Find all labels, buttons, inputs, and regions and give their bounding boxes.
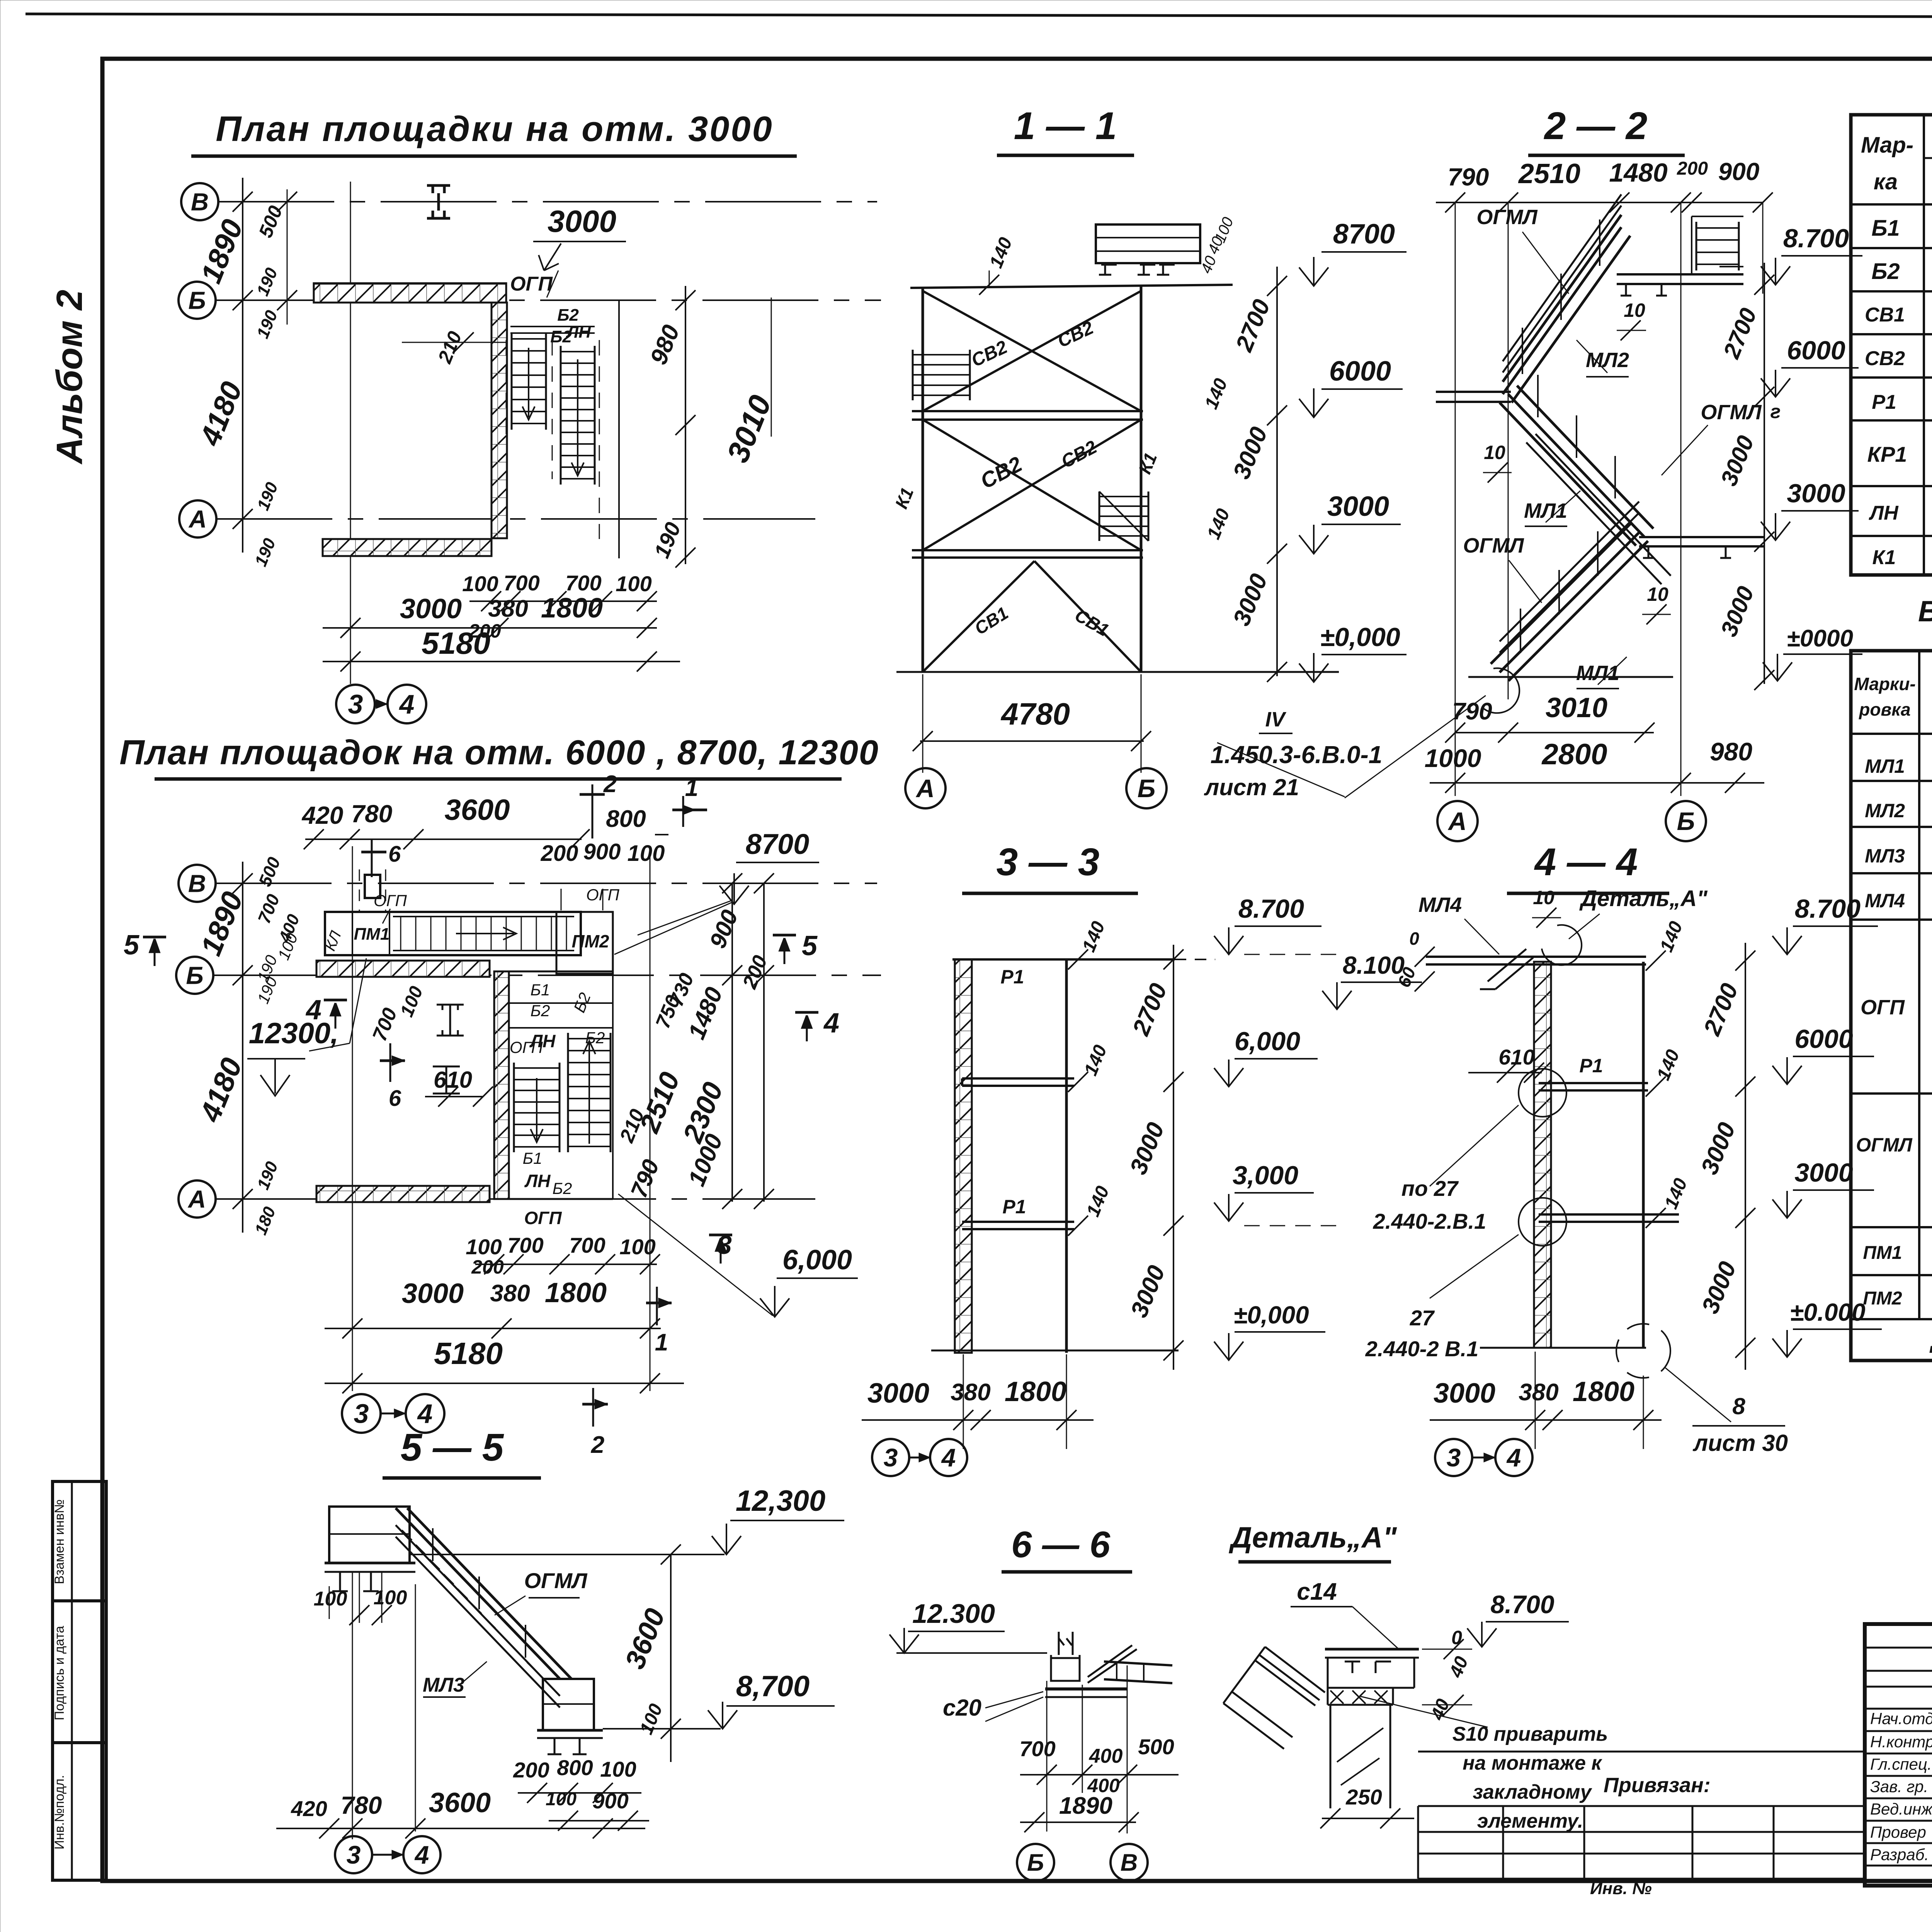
callout circle upper (4-4): [1519, 1069, 1566, 1117]
svg-text:ПМ2: ПМ2: [1863, 1288, 1902, 1309]
svg-text:3: 3: [884, 1443, 898, 1472]
left dim line 1890/4180: [242, 178, 243, 553]
stamp row lines: [1865, 1708, 1932, 1710]
top I-beam mark: [427, 185, 450, 218]
flight МЛ2 (upper): [1503, 194, 1630, 403]
svg-text:Б: Б: [188, 286, 206, 314]
svg-text:5180: 5180: [422, 626, 490, 660]
vertical dim 3600 (5-5): [670, 1554, 672, 1762]
shaft beams labels: [509, 1002, 613, 1004]
svg-text:с14: с14: [1297, 1578, 1337, 1605]
svg-text:ОГП: ОГП: [510, 273, 553, 295]
table 1 grid: [1851, 115, 1932, 575]
svg-text:700: 700: [503, 571, 539, 595]
svg-text:4: 4: [417, 1399, 433, 1429]
svg-text:МЛ4: МЛ4: [1865, 890, 1905, 912]
section mark 6 bottom: [389, 1043, 391, 1082]
svg-text:1480: 1480: [1609, 158, 1667, 187]
svg-text:8,700: 8,700: [736, 1670, 810, 1703]
svg-text:S10 приварить: S10 приварить: [1452, 1723, 1608, 1745]
svg-text:100: 100: [628, 841, 665, 866]
svg-text:±0,000: ±0,000: [1320, 622, 1400, 652]
svg-text:3000: 3000: [1787, 479, 1845, 508]
svg-text:План площадок на отм. 6000: План площадок на отм. 6000 , 8700, 12300: [119, 733, 879, 772]
base 3-3: [931, 1350, 1179, 1352]
svg-text:А: А: [188, 505, 207, 533]
svg-text:Б2: Б2: [531, 1002, 550, 1020]
vertical guide lines to circles (plan2): [352, 846, 353, 1391]
weld xxx marks: [1330, 1690, 1388, 1704]
right dim line 1-1: [1276, 267, 1278, 676]
wall vertical: [492, 303, 507, 538]
svg-text:А: А: [1447, 807, 1467, 835]
post 4-4: [1642, 962, 1645, 1348]
svg-text:8.700: 8.700: [1783, 224, 1849, 253]
svg-text:Б: Б: [1677, 807, 1695, 835]
lower landing 3000 (2-2): [1639, 536, 1764, 538]
shaft stairs left flight (down): [513, 1063, 515, 1152]
svg-text:500: 500: [1138, 1735, 1174, 1759]
beam 6000 (3-3): [962, 1077, 1074, 1080]
grid axis line В: [218, 201, 877, 202]
grid circle В (plan2): [179, 865, 216, 902]
svg-text:100: 100: [462, 571, 498, 596]
box ПМ1/КЛ: [352, 913, 353, 954]
section flag 1: [682, 796, 684, 827]
svg-text:1.450.3-6.В.0-1: 1.450.3-6.В.0-1: [1211, 741, 1383, 769]
svg-text:К1: К1: [1872, 546, 1896, 569]
section mark 2 bottom: [592, 1388, 594, 1427]
flight МЛ1 mid (down to right): [1500, 386, 1671, 584]
svg-text:ОГП: ОГП: [510, 1038, 543, 1056]
bottom dim 5180: [323, 661, 680, 662]
svg-text:Деталь„А": Деталь„А": [1228, 1521, 1397, 1554]
frame 1-1: ground line: [896, 671, 1339, 673]
svg-text:ровка: ровка: [1858, 699, 1910, 719]
svg-text:3000: 3000: [1794, 1158, 1853, 1187]
table 2 grid: [1851, 651, 1932, 1361]
svg-text:420: 420: [301, 801, 344, 829]
svg-text:элементу.: элементу.: [1477, 1810, 1583, 1832]
grid axis line В (plan2): [216, 883, 877, 884]
top platform supports: [1099, 265, 1175, 275]
svg-text:100: 100: [616, 571, 651, 596]
second beam (4-4): [1539, 1213, 1679, 1216]
svg-text:закладному: закладному: [1473, 1781, 1592, 1803]
svg-text:100: 100: [314, 1588, 347, 1610]
section mark 6 top: [371, 838, 373, 877]
svg-text:1000: 1000: [1425, 744, 1481, 772]
column 3-3 (hatched): [955, 959, 972, 1353]
guide verticals 6-6: [1046, 1681, 1048, 1832]
svg-text:Б: Б: [186, 961, 203, 989]
svg-text:6,000: 6,000: [782, 1245, 852, 1276]
svg-text:Б: Б: [1027, 1850, 1044, 1876]
svg-text:4: 4: [823, 1008, 839, 1039]
svg-text:6000: 6000: [1794, 1024, 1853, 1054]
svg-text:5180: 5180: [434, 1336, 503, 1371]
wall vertical (plan2): [494, 971, 509, 1199]
top platform 1-1: [1096, 224, 1200, 263]
svg-text:700: 700: [1019, 1736, 1055, 1761]
right dim line 4-4: [1745, 943, 1746, 1370]
V-brace bottom panel СВ1: [923, 561, 1034, 672]
svg-text:6000: 6000: [1787, 336, 1845, 365]
base landing (2-2): [1468, 676, 1673, 678]
axis circles А Б (1-1): [905, 768, 946, 808]
svg-text:Мар-: Мар-: [1861, 133, 1913, 158]
callout circle lower (4-4): [1519, 1198, 1566, 1246]
svg-text:4: 4: [1506, 1443, 1521, 1472]
svg-text:ОГП: ОГП: [524, 1208, 562, 1228]
svg-text:А: А: [187, 1185, 206, 1213]
axis circles Б В (6-6): [1017, 1844, 1054, 1881]
svg-text:2: 2: [603, 771, 617, 798]
stair shaft box: [509, 971, 613, 973]
section flag 2/800: [592, 784, 594, 838]
svg-text:Разраб.: Разраб.: [1870, 1845, 1929, 1864]
svg-text:Б: Б: [1138, 774, 1156, 803]
svg-text:Б2: Б2: [557, 306, 579, 325]
svg-text:ОГМЛ: ОГМЛ: [524, 1568, 588, 1593]
svg-text:ПМ1: ПМ1: [1863, 1243, 1902, 1263]
svg-text:1800: 1800: [541, 593, 603, 624]
axis circles А Б (2-2): [1437, 801, 1478, 841]
svg-text:КР1: КР1: [1867, 442, 1907, 466]
svg-text:420: 420: [291, 1796, 327, 1821]
svg-text:МЛ1: МЛ1: [1865, 755, 1905, 777]
grid axis line А (plan2): [216, 1198, 815, 1200]
svg-text:4: 4: [941, 1443, 956, 1472]
svg-text:780: 780: [341, 1791, 382, 1819]
svg-text:8: 8: [1732, 1393, 1745, 1419]
stair 5-5 diagonal rails: [396, 1508, 571, 1708]
top platform 4-4: [1426, 956, 1534, 958]
svg-text:ЛН: ЛН: [1868, 502, 1899, 524]
svg-text:±0,000: ±0,000: [1233, 1301, 1309, 1329]
svg-text:5: 5: [124, 930, 139, 961]
svg-text:790: 790: [1448, 163, 1489, 191]
shaft stairs right flight (up): [567, 1033, 569, 1152]
rail posts МЛ2: [1522, 219, 1600, 374]
svg-text:12,300: 12,300: [736, 1485, 825, 1517]
beam bar 6-6: [1104, 1662, 1172, 1665]
svg-text:Альбом 2: Альбом 2: [49, 290, 90, 464]
svg-text:Б2: Б2: [553, 1179, 572, 1197]
frame 1-1: mid beam: [912, 410, 1143, 412]
svg-text:610: 610: [1498, 1045, 1534, 1069]
svg-text:Р1: Р1: [1872, 391, 1896, 413]
svg-text:ЛН: ЛН: [566, 323, 591, 342]
svg-text:200: 200: [1677, 158, 1708, 179]
landing 8700 (2-2): [1617, 273, 1743, 276]
svg-text:3: 3: [354, 1399, 369, 1429]
svg-text:1: 1: [655, 1329, 668, 1356]
right dim vlines (plan2): [731, 883, 733, 1202]
frame 1-1: lower beam: [912, 549, 1143, 551]
svg-text:3,000: 3,000: [1233, 1161, 1298, 1190]
svg-text:800: 800: [557, 1755, 593, 1780]
svg-text:на монтаже к: на монтаже к: [1463, 1752, 1602, 1774]
svg-text:Инв.№подл.: Инв.№подл.: [52, 1775, 67, 1850]
svg-text:3000: 3000: [1434, 1378, 1495, 1409]
top beam 4-4: [1534, 956, 1646, 958]
svg-text:0: 0: [1409, 929, 1419, 949]
mid landing 6000 (2-2): [1436, 391, 1511, 393]
svg-text:3010: 3010: [1546, 692, 1607, 723]
svg-text:900: 900: [583, 839, 621, 864]
svg-text:3000: 3000: [1327, 491, 1389, 522]
svg-text:Марки-: Марки-: [1854, 674, 1915, 694]
svg-text:1 — 1: 1 — 1: [1014, 104, 1117, 148]
platform base plate: [325, 1562, 415, 1565]
landing strip along В: [325, 912, 581, 955]
svg-text:1890: 1890: [1059, 1793, 1112, 1819]
6-6 drawing: channel + beam: [1051, 1632, 1080, 1681]
svg-text:900: 900: [1718, 158, 1760, 185]
svg-text:СВ2: СВ2: [1865, 347, 1905, 370]
svg-text:6 — 6: 6 — 6: [1011, 1524, 1111, 1565]
grid circle А: [179, 500, 216, 537]
svg-text:12300,: 12300,: [249, 1017, 338, 1050]
svg-text:8.700: 8.700: [1490, 1590, 1554, 1619]
detail channel body: [1327, 1658, 1329, 1688]
svg-text:5 — 5: 5 — 5: [401, 1426, 504, 1469]
svg-text:12.300: 12.300: [912, 1599, 995, 1629]
svg-text:610: 610: [434, 1067, 472, 1093]
post 3-3: [1065, 959, 1068, 1353]
stamp outer box: [1865, 1624, 1932, 1886]
svg-text:4: 4: [399, 689, 415, 719]
svg-text:Подпись и дата: Подпись и дата: [52, 1626, 67, 1721]
axis circles 3 4 (4-4): [1435, 1439, 1472, 1476]
svg-text:700: 700: [569, 1233, 605, 1257]
ladder left 1-1: [912, 350, 914, 400]
svg-text:лист 30: лист 30: [1692, 1430, 1788, 1456]
grid axis line А: [216, 518, 815, 520]
svg-text:±0000: ±0000: [1787, 625, 1853, 652]
svg-text:МЛ2: МЛ2: [1586, 349, 1629, 372]
grid axis line Б (plan2): [213, 975, 881, 976]
svg-text:Нач.отд: Нач.отд: [1870, 1709, 1932, 1728]
svg-text:МЛ1: МЛ1: [1576, 662, 1619, 685]
stair treads zigzag: [402, 1530, 537, 1672]
svg-text:МЛ2: МЛ2: [1865, 800, 1905, 821]
svg-text:100: 100: [546, 1789, 577, 1810]
svg-text:ОГМЛ: ОГМЛ: [1476, 206, 1538, 229]
svg-text:Б1: Б1: [523, 1149, 543, 1167]
right dim line 980/3010/190: [618, 300, 620, 558]
svg-text:ЛН: ЛН: [524, 1171, 551, 1191]
svg-text:200: 200: [471, 1256, 504, 1278]
svg-text:лист 21: лист 21: [1204, 774, 1299, 800]
svg-text:СВ1: СВ1: [1865, 304, 1905, 326]
svg-text:В: В: [191, 188, 209, 216]
svg-text:Р1: Р1: [1579, 1055, 1603, 1077]
grid circle В: [181, 183, 218, 220]
bottom dims (plan2) 100-700-700-100: [475, 1264, 657, 1265]
svg-text:10: 10: [1624, 299, 1645, 321]
svg-text:ОГП: ОГП: [374, 891, 407, 910]
bottom dim 5180 (plan2): [325, 1383, 684, 1384]
svg-text:6000: 6000: [1329, 356, 1391, 387]
svg-text:3000: 3000: [400, 594, 462, 624]
svg-text:Инв. №: Инв. №: [1590, 1879, 1652, 1898]
svg-text:200: 200: [513, 1758, 549, 1782]
svg-text:1800: 1800: [1573, 1376, 1634, 1407]
svg-text:ОГП: ОГП: [1861, 996, 1905, 1019]
svg-text:3 — 3: 3 — 3: [997, 840, 1100, 884]
svg-text:6,000: 6,000: [1235, 1027, 1300, 1056]
grid axis line Б: [216, 299, 881, 301]
leader lines to 8700: [638, 900, 732, 935]
svg-text:2510: 2510: [1518, 158, 1580, 189]
svg-text:Привязан:: Привязан:: [1604, 1774, 1711, 1797]
wall along Б: [314, 283, 506, 303]
svg-text:100: 100: [466, 1235, 502, 1259]
leader from 12300 to stair: [309, 1043, 350, 1051]
svg-text:Взамен инв№: Взамен инв№: [52, 1499, 67, 1584]
right dim line 2-2: [1764, 263, 1765, 684]
callout circle base: [1482, 668, 1519, 713]
grid circle Б (plan2): [176, 957, 213, 994]
svg-text:4 — 4: 4 — 4: [1534, 840, 1638, 884]
axis circles 3 4 (3-3): [872, 1439, 909, 1476]
ПМ2 landing right: [556, 912, 613, 974]
guide verticals 5-5: [352, 1572, 353, 1839]
svg-text:с20: с20: [943, 1695, 981, 1721]
svg-text:8700: 8700: [1333, 219, 1395, 250]
right dim line 3-3: [1173, 945, 1174, 1370]
svg-text:В: В: [188, 869, 206, 897]
svg-text:2.440-2.В.1: 2.440-2.В.1: [1373, 1209, 1486, 1233]
top line 3-3: [952, 958, 1175, 961]
base plate 6-6: [1045, 1687, 1128, 1690]
svg-text:2800: 2800: [1541, 738, 1607, 771]
svg-text:г: г: [1770, 401, 1781, 422]
axis circles 3 and 4 (plan2): [342, 1394, 381, 1433]
svg-text:400: 400: [1089, 1745, 1123, 1767]
stair stringer coming from left: [1223, 1647, 1325, 1749]
svg-text:3600: 3600: [429, 1787, 491, 1818]
svg-text:ПМ2: ПМ2: [572, 931, 609, 951]
X-brace mid panel СВ2: [923, 420, 1141, 550]
svg-text:2: 2: [591, 1432, 604, 1458]
grid circle Б: [179, 282, 216, 319]
svg-text:ОГМЛ: ОГМЛ: [1856, 1134, 1913, 1156]
svg-text:3: 3: [347, 1840, 361, 1869]
svg-text:МЛ3: МЛ3: [423, 1674, 464, 1696]
bottom dim chain 100-700-700-100: [469, 600, 657, 602]
привязан table: [1418, 1751, 1865, 1753]
svg-text:800: 800: [606, 806, 646, 832]
small stair right 1-1: [1099, 492, 1100, 541]
svg-text:Ведомость элементов по сер: Ведомость элементов по серии 1.450.3-6.В…: [1918, 595, 1932, 628]
svg-text:200: 200: [541, 841, 578, 866]
left dim line (plan2): [242, 862, 243, 1233]
svg-text:790: 790: [1452, 698, 1492, 725]
bottom dim 3000-380-1800 (plan2): [325, 1328, 661, 1329]
svg-text:3000: 3000: [548, 204, 616, 238]
svg-text:ка: ка: [1874, 169, 1898, 194]
svg-text:В: В: [1121, 1850, 1138, 1876]
svg-text:План площадки на отм. 3000: План площадки на отм. 3000: [216, 109, 773, 149]
rail platform top right (2-2): [1696, 222, 1697, 270]
frame 1-1: columns: [922, 288, 924, 672]
svg-text:Зав. гр.: Зав. гр.: [1870, 1777, 1928, 1796]
svg-text:МЛ4: МЛ4: [1418, 893, 1462, 917]
svg-text:1800: 1800: [1005, 1376, 1066, 1407]
svg-text:8700: 8700: [746, 828, 810, 860]
svg-text:8.100: 8.100: [1343, 951, 1405, 979]
sheet top edge line: [26, 14, 1932, 18]
base 4-4: [1480, 1347, 1646, 1349]
svg-text:10: 10: [1484, 442, 1505, 463]
svg-text:3600: 3600: [444, 794, 510, 827]
svg-text:380: 380: [488, 595, 528, 622]
svg-text:27: 27: [1410, 1306, 1435, 1330]
I-beam small marks mid: [437, 1005, 464, 1036]
svg-text:5: 5: [802, 930, 818, 961]
svg-text:380: 380: [1519, 1379, 1558, 1406]
diagonal brace 6-6: [1088, 1645, 1132, 1677]
bottom dim 3000-380-1800: [323, 627, 657, 629]
svg-text:Б1: Б1: [1871, 216, 1900, 241]
stair dashed edges: [552, 340, 553, 479]
svg-text:ОГМЛ: ОГМЛ: [1701, 401, 1762, 424]
flight МЛ1 lower (up from left): [1491, 502, 1648, 681]
dim 500: [287, 189, 288, 325]
svg-text:3000: 3000: [402, 1278, 464, 1309]
svg-text:1800: 1800: [545, 1277, 607, 1308]
landing hatch legs: [1621, 284, 1667, 296]
svg-text:ОГМЛ: ОГМЛ: [1463, 534, 1524, 557]
vertical member with break: [1330, 1705, 1332, 1808]
upper platform 5-5: [329, 1507, 410, 1563]
svg-text:по 27: по 27: [1401, 1176, 1459, 1201]
lower base plate: [537, 1729, 603, 1732]
svg-text:780: 780: [351, 800, 393, 828]
stair flight right: [560, 346, 562, 485]
small post top left: [365, 875, 380, 898]
svg-text:380: 380: [490, 1280, 530, 1307]
left margin stamp table: [53, 1481, 106, 1880]
stamp top narrow rows: [1865, 1647, 1932, 1649]
section mark 1 bottom: [656, 1287, 658, 1325]
axis circles 3 4 (5-5): [335, 1836, 372, 1873]
svg-text:100: 100: [600, 1757, 636, 1781]
stair flight left: [511, 333, 513, 430]
stair МЛ4 diagonal: [1480, 949, 1533, 989]
svg-text:3: 3: [348, 689, 363, 719]
svg-text:Провер: Провер: [1870, 1823, 1926, 1841]
svg-text:Деталь„А": Деталь„А": [1579, 886, 1708, 911]
svg-text:10: 10: [1647, 583, 1668, 605]
beam P1 (4-4): [1539, 1082, 1648, 1084]
svg-text:IV: IV: [1265, 708, 1286, 731]
svg-text:900: 900: [592, 1789, 628, 1813]
wall along А: [323, 539, 492, 556]
svg-text:Р1: Р1: [1002, 1196, 1026, 1218]
svg-text:Р1: Р1: [1000, 966, 1024, 988]
svg-text:4780: 4780: [1000, 697, 1070, 731]
svg-text:2.440-2 В.1: 2.440-2 В.1: [1365, 1337, 1479, 1361]
svg-text:6: 6: [389, 1086, 401, 1111]
vertical guides 2-2: [1455, 202, 1456, 796]
vertical axis 3 line: [350, 182, 351, 684]
svg-text:6: 6: [388, 842, 401, 867]
svg-text:700: 700: [507, 1233, 543, 1257]
